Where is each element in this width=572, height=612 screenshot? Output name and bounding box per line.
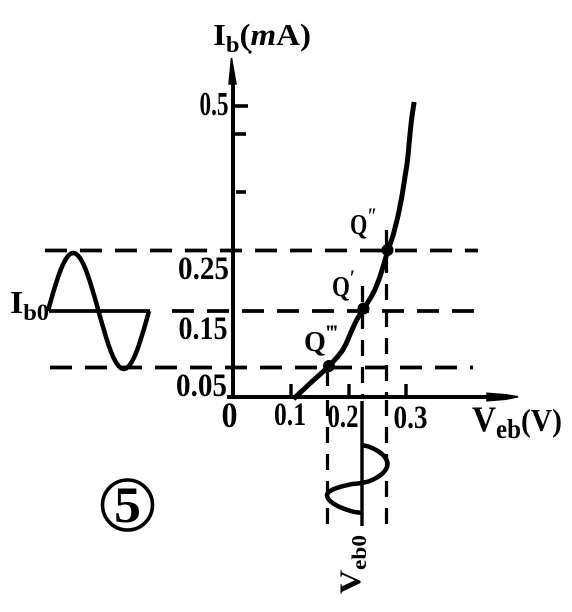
label Veb0 (rotated) <box>334 535 371 594</box>
Veb0 center line below axis <box>360 401 363 526</box>
dashed vertical line at Q''' below axis <box>326 400 329 533</box>
x tick 0.3 <box>404 384 407 396</box>
svg-text:0.15: 0.15 <box>179 311 228 347</box>
figure number 5 (circled) <box>103 478 153 534</box>
output sine wave (base voltage vs time) <box>327 445 388 513</box>
y tick 0.5 <box>233 104 248 108</box>
ink speck <box>248 50 251 53</box>
svg-text:0.05: 0.05 <box>176 368 227 404</box>
Q-point Q''' (dot) <box>323 360 335 372</box>
Q-point Q'' (dot) <box>382 244 394 256</box>
svg-text:0.3: 0.3 <box>394 400 428 436</box>
Ib0 center line (solid, left) <box>49 309 150 313</box>
svg-text:0.1: 0.1 <box>274 397 306 433</box>
dashed vertical line at Q''' <box>326 372 329 397</box>
Q-point Q' (dot) <box>358 303 370 315</box>
dashed horizontal line at Ib=0.07 (bottom) <box>50 366 473 370</box>
svg-text:0: 0 <box>222 395 238 435</box>
x tick 0.1 <box>289 384 292 396</box>
dashed vertical line at Q'' below axis <box>385 400 388 528</box>
y-axis <box>229 58 236 399</box>
x tick 0.2 <box>347 384 350 396</box>
svg-text:0.25: 0.25 <box>178 251 229 287</box>
x-axis <box>227 393 518 401</box>
svg-text:0.2: 0.2 <box>328 399 359 435</box>
svg-text:5: 5 <box>114 478 141 534</box>
svg-text:0.5: 0.5 <box>200 86 229 123</box>
dashed horizontal line at Ib=0.26 (top) <box>45 249 478 253</box>
y tick 0.45 <box>233 132 246 136</box>
dashed vertical line at Q'' <box>385 230 388 397</box>
transfer characteristic curve <box>294 102 415 399</box>
dashed horizontal line at Ib0 (middle) <box>172 309 478 313</box>
y tick 0.35 <box>236 190 246 194</box>
dashed vertical line at Q' <box>361 286 364 397</box>
input sine wave (base current vs time) <box>48 253 149 369</box>
